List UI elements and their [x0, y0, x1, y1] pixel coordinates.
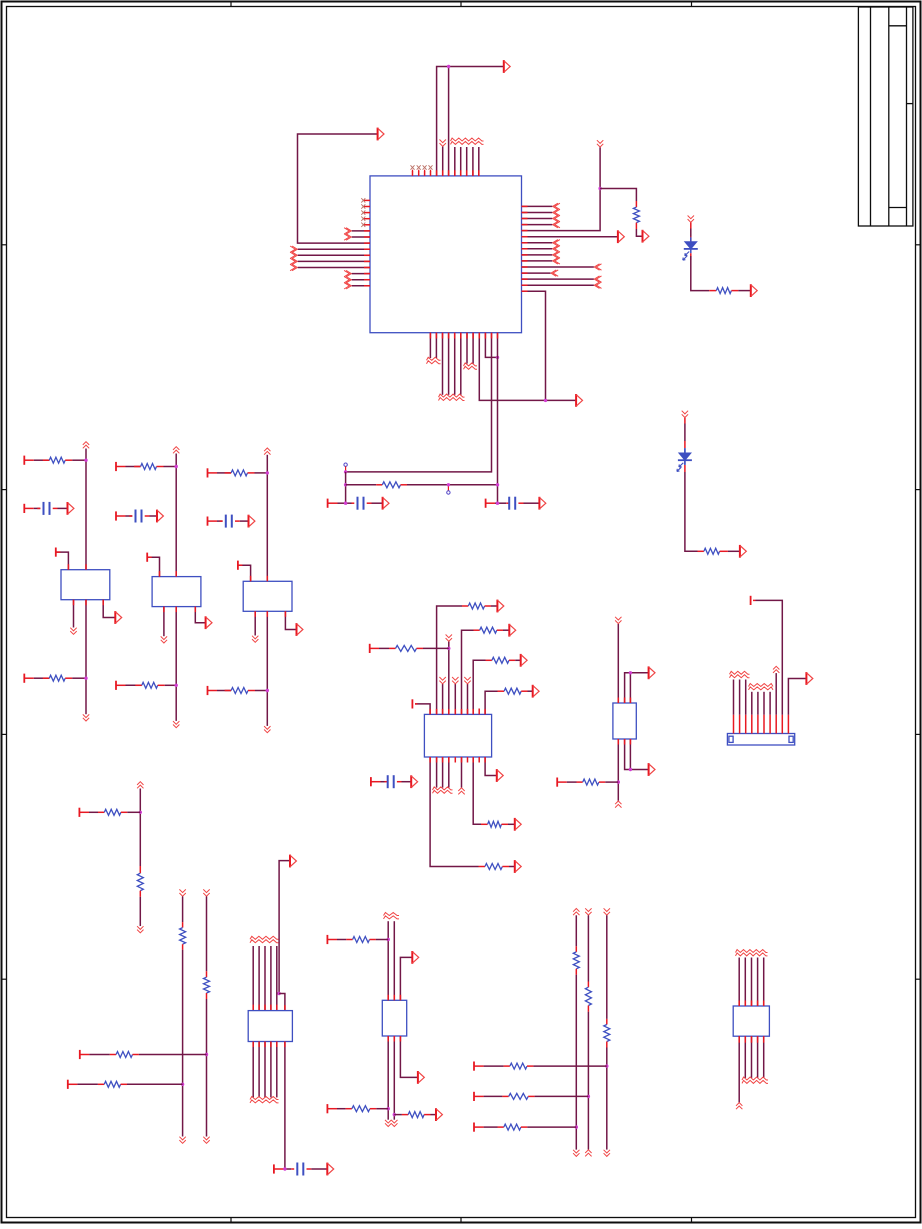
port arrow (cap C1 net) — [383, 497, 389, 510]
resistor row (lower) — [207, 686, 209, 695]
resistor R3 — [709, 290, 716, 292]
junction rail/row lower — [266, 689, 269, 692]
port arrow (C4 net) — [327, 1163, 333, 1176]
U5 top pin1 wire with net label — [387, 921, 389, 1000]
junction of vertical from U1 right pin — [544, 399, 547, 402]
power net label (top) — [83, 442, 89, 445]
wire U1 left pin to left port — [298, 134, 378, 243]
wire divider to gnd label — [139, 897, 141, 926]
port arrow (U5 bpin3 net) — [418, 1071, 424, 1084]
U1 right pin wire long with net label — [522, 266, 594, 268]
wire U2 pin1 to tick — [415, 704, 430, 715]
U6 top pins wires with net labels — [738, 958, 740, 1007]
resistor R8 row3 — [486, 659, 492, 661]
regulator U body — [61, 570, 110, 600]
resistor R20 row (U5 lower) — [326, 1104, 328, 1113]
port arrow (J1 net) — [806, 672, 812, 685]
port arrow (cap C2 net) — [539, 497, 545, 510]
J1 pin9 wire to tick — [781, 715, 783, 734]
wire vertical rail (lower) — [266, 611, 268, 726]
power net label (divider top) — [137, 782, 143, 785]
U4 bottom pins wires with net labels — [252, 1042, 254, 1098]
net label line A bottom — [179, 1137, 185, 1140]
junction on pull-up wire — [598, 187, 601, 190]
rail pin into body top — [175, 571, 177, 577]
IC U1 body — [370, 176, 522, 333]
net label above LED D1 — [688, 216, 694, 219]
junction rail/row upper — [84, 459, 87, 462]
port arrow (cap net) — [68, 502, 74, 515]
port arrow row3 — [521, 654, 527, 667]
port arrow (R21 net) — [436, 1108, 442, 1121]
wire vertical rail (lower) — [175, 607, 177, 721]
port arrow (LED D1 net) — [751, 284, 757, 297]
net label line3 top — [604, 908, 610, 911]
resistor R26 row2 — [473, 1092, 475, 1101]
U3 top pin2 wire to junction — [625, 673, 631, 703]
U1 top no-connect pins with x marks — [412, 171, 414, 176]
no-connect circle above bus node — [344, 463, 347, 466]
regulator U body — [152, 577, 201, 607]
wire line2 with resistor R23 — [587, 915, 589, 981]
junction U3 bottom — [629, 768, 632, 771]
U3 top pin3 wire to port — [630, 673, 648, 703]
wire LED D2 to resistor R4 — [684, 460, 686, 465]
IC U4 body — [248, 1011, 292, 1042]
title block (rotated, top right) — [858, 7, 913, 226]
wire line1 with resistor R22 — [575, 915, 577, 946]
no-connect stub with circle on row B — [447, 485, 449, 491]
U2 pin3 wire with net label — [442, 684, 444, 714]
IC U5 body — [382, 1000, 406, 1036]
port arrow (U4 feed) — [290, 855, 296, 868]
resistor row (upper) — [115, 462, 117, 471]
wire U2 pin8 to resistor row3 — [473, 660, 485, 714]
U5 top pin2 wire with net label — [393, 921, 395, 1000]
U1 bottom pin wires pair2 with net labels — [466, 333, 468, 364]
LED D1 — [690, 237, 692, 242]
resistor R9 row4 — [498, 690, 505, 692]
resistor R7 row2 — [474, 629, 480, 631]
power net label (top) — [264, 448, 270, 451]
capacitor C2 row (right) — [485, 499, 487, 508]
wire line A — [182, 896, 184, 922]
junction rail/row lower — [175, 684, 178, 687]
ground net label (rail bottom) — [83, 714, 89, 717]
net label line A top — [179, 889, 185, 892]
capacitor row — [115, 511, 117, 520]
port arrow (R1 net) — [643, 230, 649, 243]
net label above pull-up wire — [597, 140, 603, 143]
net label line1 top (power) — [573, 909, 579, 912]
port arrow (U3 top net) — [649, 666, 655, 679]
wire U1 bottom pin down to cap bus — [497, 333, 499, 504]
U6 bottom pins 2-5 wires with net labels — [744, 1036, 746, 1078]
rail pin into body top — [85, 564, 87, 570]
wire junction to resistor R1 — [600, 189, 636, 202]
port arrow (U3 bottom net) — [649, 763, 655, 776]
wire line A lower — [182, 950, 184, 1137]
ground net label (rail bottom) — [264, 726, 270, 729]
wire R1 to port — [636, 229, 642, 236]
resistor row (upper) — [207, 468, 209, 477]
ground net label — [252, 636, 258, 639]
wire U1 bottom pin L to adjacent pin net — [485, 333, 497, 358]
junction row B right — [496, 483, 499, 486]
net label line2 top — [585, 908, 591, 911]
port arrow (U1 right net) — [618, 230, 624, 243]
U1 top pin wire with net label — [442, 147, 444, 176]
wire U1 bottom pin to port (net row y400) — [479, 333, 576, 401]
U2 bpin5 stub — [454, 757, 456, 763]
wire top-left pin to tick — [238, 565, 251, 581]
wire line B — [206, 896, 208, 971]
resistor R27 row3 — [473, 1123, 475, 1132]
junction line2/row2 — [587, 1095, 590, 1098]
J1 pin10 wire to port — [787, 715, 789, 734]
net label line2 bottom — [585, 1150, 591, 1153]
U1 left pin wires with net labels (upper pair) — [352, 230, 370, 232]
port arrow row1 — [497, 600, 503, 613]
U1 left pin wires with net labels (lower trio) — [352, 273, 370, 275]
J1 pin8 wire with power label — [775, 715, 777, 734]
junction on pin12 line — [496, 356, 499, 359]
junction U4 feed — [277, 992, 280, 995]
resistor R16 (vertical line B) — [206, 971, 208, 977]
wire U2 pin10 to resistor row4 — [485, 691, 497, 714]
border zone tick marks — [2, 244, 7, 246]
resistor row (lower) — [115, 681, 117, 690]
wire vertical rail (upper) — [175, 454, 177, 577]
capacitor row — [207, 517, 209, 526]
U2 pin9 stub — [478, 709, 480, 715]
net label line3 bottom — [604, 1150, 610, 1153]
connector J1 body — [727, 734, 794, 746]
wire divider rail upper — [139, 789, 141, 867]
resistor R25 row1 — [473, 1062, 475, 1071]
IC U2 body — [424, 714, 491, 757]
junction line1/row3 — [575, 1125, 578, 1128]
U2 pin7 wire with net label — [467, 684, 469, 714]
LED D2 — [684, 449, 686, 454]
net label line B top — [203, 889, 209, 892]
J1 pins 4-7 wires with net labels — [751, 715, 753, 734]
U2 bottom pins trio with net labels — [436, 757, 438, 788]
wire vertical rail (upper) — [266, 455, 268, 582]
wire bus vertical — [345, 472, 347, 503]
resistor R19 row (into U5) — [326, 935, 328, 944]
U1 right pin wire short with net label — [522, 272, 551, 274]
port arrow (left net) — [378, 128, 384, 141]
U1 bottom pin wires pair with net labels — [429, 333, 431, 358]
port arrow (lowest row) — [515, 860, 521, 873]
U6 bottom pin1 wire with net label — [738, 1036, 740, 1102]
junction rail/row upper — [175, 465, 178, 468]
wire U2 bpin10 to port — [485, 757, 497, 776]
wire U1 right pin to pull-up net — [522, 147, 601, 230]
net label line B bottom — [203, 1137, 209, 1140]
resistor R12 row into U3 gnd line — [556, 778, 558, 787]
U1 left no-connect pins with x marks — [364, 199, 370, 201]
port arrow (LED D2 net) — [740, 545, 746, 558]
U2 bpin7 stub — [467, 757, 469, 763]
wire bus row B with resistor R2 — [346, 484, 377, 486]
junction U3 top — [629, 671, 632, 674]
capacitor row — [23, 504, 25, 513]
junction bus A — [344, 470, 347, 473]
wire bottom-right pin to port — [285, 611, 296, 629]
wire U2 bpin1 to resistor row (lowest) — [430, 757, 478, 867]
capacitor C4 row (bottom) — [273, 1164, 275, 1173]
U1 right pin wires with net labels (upper quad) — [522, 205, 553, 207]
U1 left long pin wires with net labels — [298, 248, 370, 250]
wire U4 feed step — [279, 994, 285, 1011]
U3 bottom pin2 wire to junction — [625, 739, 631, 770]
U1 top pin wires group with net labels — [454, 147, 456, 176]
wire bottom-left pin to gnd label — [254, 611, 256, 635]
wire U2 pin6 to resistor row2 — [462, 630, 474, 714]
U2 bpin6 wire with net label — [461, 757, 463, 788]
U5 bottom pin2 wire with net label — [393, 1036, 395, 1120]
wire top-left pin to tick — [56, 552, 69, 570]
junction B/row1 — [205, 1053, 208, 1056]
U3 bottom pin1 wire to gnd label — [617, 739, 619, 801]
U1 right pin wires with net labels (mid quad) — [522, 242, 553, 244]
resistor R6 row (left input) — [369, 644, 371, 653]
rail pin into body top — [266, 576, 268, 582]
U2 pin4 wire with net label and junction — [448, 642, 450, 715]
wire bottom-left pin to gnd label — [73, 600, 75, 628]
wire LED D1 to resistor R3 — [690, 253, 692, 260]
net label above LED D2 — [682, 411, 688, 414]
wire U1 bottom pin to mid bus A — [346, 333, 492, 472]
ground net label (divider) — [137, 926, 143, 929]
port arrow (cap net) — [249, 515, 255, 528]
resistor R11 — [481, 823, 488, 825]
wire U1 right pin to port — [522, 236, 618, 238]
junction rail/row lower — [84, 677, 87, 680]
wire U1 right pin down to port row — [522, 291, 546, 400]
port arrow (regulator output) — [206, 616, 212, 629]
wire top-left pin to tick — [147, 557, 159, 576]
IC U3 body — [613, 703, 636, 739]
resistor R13 row into divider — [78, 808, 80, 817]
ground net label (rail bottom) — [173, 721, 179, 724]
U1 bottom pin wires quad with net labels — [442, 333, 444, 395]
wire bottom-right pin to port — [195, 607, 205, 623]
junction line3/row1 — [605, 1064, 608, 1067]
ground net label — [161, 636, 167, 639]
port arrow row4 — [533, 685, 539, 698]
port arrow row2 — [509, 624, 515, 637]
resistor R15 (vertical line A) — [182, 922, 184, 928]
wire U4 feed to port — [279, 861, 290, 994]
wire U2 pin2 to resistor row1 — [437, 606, 462, 714]
power net label (top) — [173, 447, 179, 450]
wire U1 pin to top port (left branch) — [437, 67, 504, 176]
U4 top pins wires with net labels — [252, 946, 254, 1011]
wire U4 pin6 down to cap row — [284, 1042, 286, 1170]
port arrow (R11 net) — [515, 818, 521, 831]
port arrow (regulator output) — [297, 623, 303, 636]
wire vertical rail (upper) — [85, 449, 87, 570]
port arrow (bottom right net) — [576, 394, 582, 407]
wire vertical rail (lower) — [85, 600, 87, 715]
port arrow (cap net) — [157, 510, 163, 523]
U2 pin5 wire with net label — [454, 684, 456, 714]
ground net label — [70, 628, 76, 631]
resistor R4 — [698, 550, 704, 552]
wire U5 bottom pin3 to port — [400, 1036, 418, 1077]
resistor R5 row1 — [462, 605, 468, 607]
resistor row (upper) — [23, 456, 25, 465]
resistor R21 row to port — [394, 1114, 402, 1116]
net label line1 bottom — [573, 1150, 579, 1153]
port arrow (regulator output) — [115, 611, 121, 624]
U3 top pin1 wire with net label — [617, 624, 619, 703]
junction rail/row upper — [266, 471, 269, 474]
U3 bottom pin3 wire to port — [630, 739, 648, 770]
port arrow (top net) — [504, 60, 510, 73]
wire bottom-left pin to gnd label — [163, 607, 165, 637]
regulator U body — [243, 581, 292, 611]
junction bus B — [344, 483, 347, 486]
resistor R14 (vertical in divider) — [139, 866, 141, 873]
wire bottom-right pin to port — [103, 600, 115, 618]
junction at top wire — [447, 65, 450, 68]
junction divider — [139, 811, 142, 814]
ground net label under U3 — [615, 801, 621, 804]
U5 bottom pin1 wire with net label — [387, 1036, 389, 1120]
IC U6 body — [733, 1006, 769, 1036]
resistor R18 row2 (lower left) — [67, 1080, 69, 1089]
wire U1 pin to top port (right branch) — [448, 67, 450, 176]
resistor R10 — [479, 866, 486, 868]
J1 pins 1-3 wires with net labels — [733, 715, 735, 734]
U1 right pin wires long with net labels — [522, 278, 594, 280]
port arrow (U5 top net) — [412, 951, 418, 964]
junction U5 pin1/row — [387, 938, 390, 941]
capacitor C3 row (U2 left) — [370, 777, 372, 786]
resistor R17 row1 (lower left) — [79, 1050, 81, 1059]
wire U2 bpin8 to resistor — [473, 757, 481, 824]
wire to LED D1 — [690, 223, 692, 229]
wire U5 top pin3 to port — [400, 957, 412, 1000]
port arrow (bpin10 net) — [497, 769, 503, 782]
resistor R1 (vertical) — [635, 201, 637, 207]
wire line3 with resistor R24 — [606, 915, 608, 1019]
capacitor C1 row (left) — [327, 499, 329, 508]
junction U3/resistor — [617, 780, 620, 783]
wire to LED D2 — [684, 418, 686, 424]
U2 bpin9 stub — [478, 757, 480, 763]
wire line B lower — [206, 999, 208, 1137]
junction A/row2 — [181, 1083, 184, 1086]
resistor row (lower) — [23, 674, 25, 683]
port arrow (C3 net) — [411, 775, 417, 788]
